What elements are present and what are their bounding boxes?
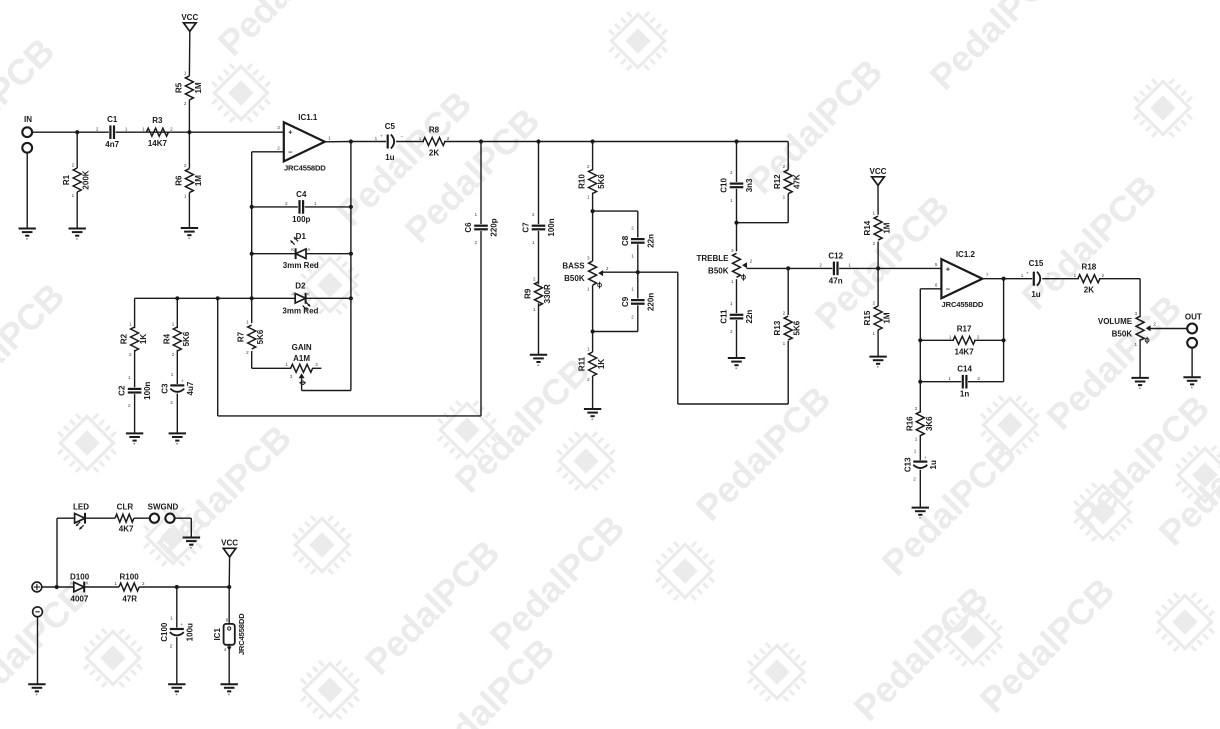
svg-text:5K6: 5K6 bbox=[793, 320, 802, 335]
svg-text:C13: C13 bbox=[903, 457, 912, 472]
svg-text:C1: C1 bbox=[107, 115, 118, 124]
svg-text:R12: R12 bbox=[773, 174, 782, 189]
svg-text:R2: R2 bbox=[120, 333, 129, 344]
svg-text:330R: 330R bbox=[543, 284, 552, 303]
svg-text:1: 1 bbox=[246, 320, 249, 325]
svg-text:CLR: CLR bbox=[117, 502, 134, 511]
svg-text:4u7: 4u7 bbox=[186, 381, 195, 395]
svg-text:14K7: 14K7 bbox=[955, 347, 975, 356]
svg-text:R9: R9 bbox=[524, 288, 533, 299]
svg-text:C8: C8 bbox=[621, 235, 630, 246]
svg-text:1: 1 bbox=[128, 375, 131, 380]
svg-text:1: 1 bbox=[375, 136, 378, 141]
svg-text:47n: 47n bbox=[829, 276, 843, 285]
svg-text:1: 1 bbox=[171, 372, 174, 377]
svg-text:100n: 100n bbox=[143, 381, 152, 399]
svg-text:2: 2 bbox=[128, 403, 131, 408]
svg-text:2: 2 bbox=[1153, 321, 1156, 326]
svg-text:TREBLE: TREBLE bbox=[697, 254, 730, 263]
svg-text:1: 1 bbox=[783, 341, 786, 346]
svg-text:2: 2 bbox=[142, 581, 145, 586]
svg-text:C11: C11 bbox=[720, 309, 729, 324]
svg-text:1: 1 bbox=[587, 195, 590, 200]
svg-text:−: − bbox=[401, 135, 404, 140]
svg-text:2: 2 bbox=[915, 406, 918, 411]
svg-text:OUT: OUT bbox=[1185, 313, 1202, 322]
svg-text:1: 1 bbox=[419, 136, 422, 141]
svg-text:2: 2 bbox=[631, 314, 634, 319]
svg-text:R14: R14 bbox=[863, 220, 872, 235]
svg-text:2: 2 bbox=[873, 301, 876, 306]
svg-text:1: 1 bbox=[730, 301, 733, 306]
svg-text:R1: R1 bbox=[62, 174, 71, 185]
svg-text:C12: C12 bbox=[828, 251, 843, 260]
svg-text:2: 2 bbox=[750, 258, 753, 263]
svg-text:100p: 100p bbox=[292, 215, 310, 224]
svg-text:22n: 22n bbox=[646, 234, 655, 248]
svg-text:1: 1 bbox=[873, 211, 876, 216]
svg-text:7: 7 bbox=[986, 272, 989, 277]
svg-text:C7: C7 bbox=[522, 222, 531, 233]
svg-text:LED: LED bbox=[73, 502, 89, 511]
svg-text:−: − bbox=[1047, 272, 1050, 277]
svg-text:5K6: 5K6 bbox=[182, 331, 191, 346]
svg-text:3: 3 bbox=[290, 374, 293, 379]
svg-text:2: 2 bbox=[170, 400, 173, 405]
svg-text:2: 2 bbox=[533, 276, 536, 281]
svg-text:2: 2 bbox=[730, 329, 733, 334]
svg-text:JRC4558DD: JRC4558DD bbox=[284, 163, 326, 172]
svg-text:+: + bbox=[181, 379, 184, 384]
svg-text:1: 1 bbox=[114, 581, 117, 586]
svg-text:1: 1 bbox=[1074, 273, 1077, 278]
svg-text:R13: R13 bbox=[773, 320, 782, 335]
svg-text:+: + bbox=[380, 134, 383, 139]
svg-text:2: 2 bbox=[783, 311, 786, 316]
svg-text:R10: R10 bbox=[578, 174, 587, 189]
svg-text:2K: 2K bbox=[1084, 286, 1094, 295]
svg-text:5K6: 5K6 bbox=[597, 174, 606, 189]
svg-text:2: 2 bbox=[285, 201, 288, 206]
svg-text:R4: R4 bbox=[162, 333, 171, 344]
svg-text:1K: 1K bbox=[139, 334, 148, 344]
svg-text:2: 2 bbox=[532, 212, 535, 217]
svg-text:3: 3 bbox=[277, 125, 280, 130]
svg-text:1: 1 bbox=[532, 240, 535, 245]
svg-text:+: + bbox=[946, 265, 951, 274]
svg-text:2: 2 bbox=[977, 376, 980, 381]
svg-text:1: 1 bbox=[631, 253, 634, 258]
svg-text:C14: C14 bbox=[957, 365, 972, 374]
svg-text:3: 3 bbox=[587, 256, 590, 261]
svg-text:1M: 1M bbox=[883, 312, 892, 323]
svg-text:R17: R17 bbox=[957, 324, 972, 333]
svg-text:2: 2 bbox=[96, 127, 99, 132]
svg-text:IC1: IC1 bbox=[213, 628, 222, 641]
svg-text:−: − bbox=[946, 284, 951, 293]
svg-text:C100: C100 bbox=[160, 622, 169, 642]
svg-text:IN: IN bbox=[24, 115, 32, 124]
svg-text:2: 2 bbox=[913, 476, 916, 481]
svg-text:VCC: VCC bbox=[870, 167, 887, 176]
svg-text:VCC: VCC bbox=[221, 539, 238, 548]
svg-text:3n3: 3n3 bbox=[745, 178, 754, 192]
svg-text:B50K: B50K bbox=[708, 266, 729, 275]
svg-text:1: 1 bbox=[587, 347, 590, 352]
svg-text:1: 1 bbox=[914, 448, 917, 453]
svg-text:+: + bbox=[1026, 271, 1029, 276]
svg-text:1: 1 bbox=[1135, 342, 1138, 347]
svg-text:1M: 1M bbox=[194, 82, 203, 93]
svg-text:2: 2 bbox=[170, 644, 173, 649]
svg-text:C5: C5 bbox=[385, 122, 396, 131]
svg-text:D2: D2 bbox=[295, 282, 306, 291]
svg-text:2: 2 bbox=[184, 163, 187, 168]
svg-text:1: 1 bbox=[915, 437, 918, 442]
svg-text:B50K: B50K bbox=[564, 274, 585, 283]
svg-text:1M: 1M bbox=[883, 222, 892, 233]
svg-text:+: + bbox=[288, 128, 293, 137]
svg-text:1: 1 bbox=[72, 193, 75, 198]
svg-text:1: 1 bbox=[184, 70, 187, 75]
svg-text:C2: C2 bbox=[118, 385, 127, 396]
svg-text:C15: C15 bbox=[1029, 259, 1044, 268]
svg-text:220p: 220p bbox=[490, 218, 499, 236]
svg-text:4: 4 bbox=[224, 647, 227, 652]
svg-text:IC1.1: IC1.1 bbox=[298, 113, 318, 122]
svg-text:VOLUME: VOLUME bbox=[1098, 317, 1133, 326]
svg-text:1: 1 bbox=[172, 322, 175, 327]
svg-text:1u: 1u bbox=[929, 460, 938, 469]
svg-text:R16: R16 bbox=[905, 416, 914, 431]
svg-text:1: 1 bbox=[587, 287, 590, 292]
svg-text:2: 2 bbox=[783, 164, 786, 169]
svg-text:2: 2 bbox=[977, 335, 980, 340]
svg-text:1: 1 bbox=[314, 201, 317, 206]
svg-text:R7: R7 bbox=[237, 331, 246, 342]
svg-text:3mm Red: 3mm Red bbox=[283, 261, 319, 270]
svg-text:1: 1 bbox=[783, 195, 786, 200]
svg-text:1: 1 bbox=[328, 136, 331, 141]
svg-text:220n: 220n bbox=[646, 293, 655, 311]
svg-text:1: 1 bbox=[285, 362, 288, 367]
svg-text:R100: R100 bbox=[120, 572, 140, 581]
svg-text:R11: R11 bbox=[578, 356, 587, 371]
svg-text:4n7: 4n7 bbox=[105, 140, 119, 149]
svg-text:2: 2 bbox=[587, 164, 590, 169]
svg-text:1: 1 bbox=[731, 279, 734, 284]
svg-text:1: 1 bbox=[873, 331, 876, 336]
svg-text:IC1.2: IC1.2 bbox=[956, 250, 976, 259]
svg-text:1: 1 bbox=[474, 212, 477, 217]
svg-text:2K: 2K bbox=[429, 149, 439, 158]
svg-text:1: 1 bbox=[631, 286, 634, 291]
svg-text:47R: 47R bbox=[122, 594, 137, 603]
svg-text:B50K: B50K bbox=[1112, 329, 1133, 338]
svg-text:2: 2 bbox=[170, 127, 173, 132]
svg-text:1: 1 bbox=[129, 322, 132, 327]
svg-text:JRC4558DD: JRC4558DD bbox=[237, 613, 246, 655]
svg-text:−: − bbox=[288, 147, 293, 156]
svg-text:D100: D100 bbox=[70, 572, 90, 581]
svg-text:C3: C3 bbox=[160, 383, 169, 394]
svg-text:1u: 1u bbox=[385, 153, 394, 162]
svg-text:2: 2 bbox=[129, 352, 132, 357]
svg-text:R3: R3 bbox=[152, 116, 163, 125]
svg-text:2: 2 bbox=[72, 163, 75, 168]
svg-text:+: + bbox=[180, 622, 183, 627]
svg-text:R8: R8 bbox=[429, 126, 440, 135]
svg-text:1: 1 bbox=[142, 127, 145, 132]
svg-text:8: 8 bbox=[226, 618, 229, 623]
svg-text:4K7: 4K7 bbox=[119, 525, 134, 534]
svg-text:C6: C6 bbox=[464, 222, 473, 233]
svg-text:D1: D1 bbox=[296, 232, 307, 241]
svg-text:SWGND: SWGND bbox=[148, 502, 179, 511]
svg-text:2: 2 bbox=[730, 170, 733, 175]
svg-text:2: 2 bbox=[587, 377, 590, 382]
svg-text:2: 2 bbox=[1102, 273, 1105, 278]
svg-text:1: 1 bbox=[533, 307, 536, 312]
svg-text:1: 1 bbox=[848, 263, 851, 268]
svg-text:R5: R5 bbox=[174, 82, 183, 93]
svg-text:5K6: 5K6 bbox=[256, 329, 265, 344]
svg-text:3: 3 bbox=[731, 248, 734, 253]
svg-text:BASS: BASS bbox=[562, 262, 585, 271]
svg-text:100u: 100u bbox=[185, 623, 194, 641]
svg-text:14K7: 14K7 bbox=[148, 139, 168, 148]
svg-text:A1M: A1M bbox=[293, 354, 310, 363]
svg-text:200K: 200K bbox=[82, 170, 91, 189]
svg-text:R15: R15 bbox=[863, 310, 872, 325]
svg-text:C9: C9 bbox=[621, 296, 630, 307]
svg-text:5: 5 bbox=[935, 262, 938, 267]
svg-text:2: 2 bbox=[606, 266, 609, 271]
svg-text:1: 1 bbox=[170, 616, 173, 621]
svg-text:1: 1 bbox=[948, 376, 951, 381]
svg-text:3K6: 3K6 bbox=[925, 416, 934, 431]
svg-text:2: 2 bbox=[474, 240, 477, 245]
svg-text:+: + bbox=[924, 455, 927, 460]
svg-text:2: 2 bbox=[277, 146, 280, 151]
svg-text:C4: C4 bbox=[296, 190, 307, 199]
svg-text:1: 1 bbox=[949, 335, 952, 340]
svg-text:1u: 1u bbox=[1031, 290, 1040, 299]
svg-text:2: 2 bbox=[819, 263, 822, 268]
svg-text:1n: 1n bbox=[960, 390, 969, 399]
svg-text:1: 1 bbox=[1021, 273, 1024, 278]
svg-text:2: 2 bbox=[184, 101, 187, 106]
svg-text:3: 3 bbox=[1135, 311, 1138, 316]
svg-text:VCC: VCC bbox=[181, 13, 198, 22]
svg-text:1M: 1M bbox=[194, 175, 203, 186]
svg-text:R6: R6 bbox=[174, 175, 183, 186]
svg-text:100n: 100n bbox=[547, 218, 556, 236]
svg-text:2: 2 bbox=[172, 352, 175, 357]
svg-text:2: 2 bbox=[631, 225, 634, 230]
svg-text:2: 2 bbox=[447, 136, 450, 141]
svg-text:2: 2 bbox=[873, 241, 876, 246]
svg-text:2: 2 bbox=[315, 362, 318, 367]
svg-text:C10: C10 bbox=[720, 178, 729, 193]
svg-text:1K: 1K bbox=[597, 359, 606, 369]
svg-text:47K: 47K bbox=[793, 174, 802, 189]
svg-text:22n: 22n bbox=[745, 310, 754, 324]
svg-text:JRC4558DD: JRC4558DD bbox=[942, 300, 984, 309]
svg-text:1: 1 bbox=[730, 198, 733, 203]
svg-text:1: 1 bbox=[125, 127, 128, 132]
svg-text:R18: R18 bbox=[1082, 263, 1097, 272]
svg-text:6: 6 bbox=[935, 282, 938, 287]
svg-text:3mm Red: 3mm Red bbox=[282, 307, 318, 316]
svg-text:1: 1 bbox=[184, 194, 187, 199]
svg-text:2: 2 bbox=[246, 350, 249, 355]
svg-text:4007: 4007 bbox=[71, 594, 89, 603]
svg-text:GAIN: GAIN bbox=[292, 343, 312, 352]
